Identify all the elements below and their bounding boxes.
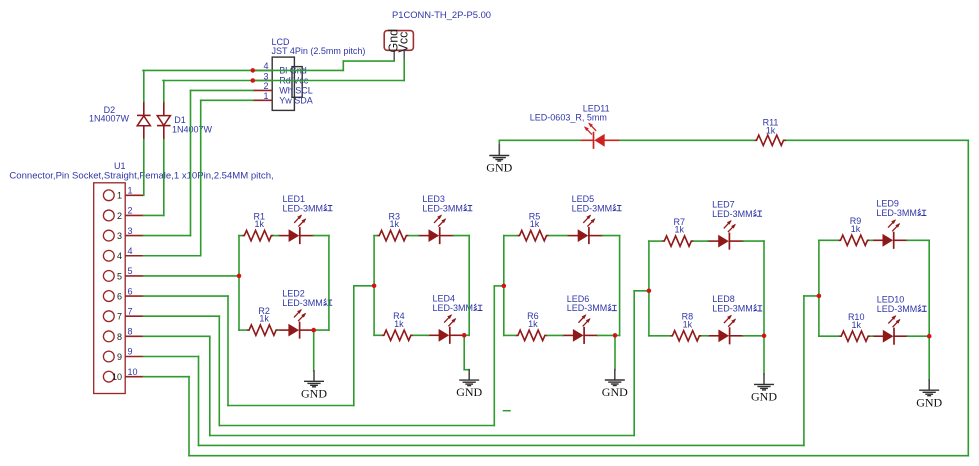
svg-text:1k: 1k bbox=[255, 219, 265, 229]
svg-text:2: 2 bbox=[117, 211, 122, 221]
wire pin6 vertical down bbox=[227, 296, 229, 405]
wire block2 ground jog bbox=[464, 369, 469, 371]
wire bbox=[277, 329, 279, 331]
wire block1 to ground bbox=[313, 330, 315, 371]
LED LED4 bbox=[428, 334, 438, 336]
P1 pin 1 Gnd bbox=[386, 29, 400, 61]
wire D1 to LCD pin3 row bbox=[163, 81, 165, 102]
resistor R8 bbox=[670, 331, 702, 341]
svg-text:1: 1 bbox=[117, 191, 122, 201]
wire U1 pin1 to D2 bbox=[143, 140, 145, 196]
U1 pin 1 bbox=[103, 186, 143, 201]
wire left vertical bbox=[238, 236, 240, 331]
junction bbox=[817, 294, 822, 299]
svg-text:1: 1 bbox=[263, 91, 268, 101]
svg-text:9: 9 bbox=[128, 347, 133, 357]
wire U1 pin3 horizontal bbox=[144, 235, 191, 237]
svg-text:6: 6 bbox=[117, 291, 122, 301]
wire bbox=[908, 335, 930, 337]
resistor R3 bbox=[377, 230, 409, 240]
svg-text:3: 3 bbox=[117, 231, 122, 241]
svg-text:10: 10 bbox=[112, 372, 122, 382]
wire bbox=[819, 335, 839, 337]
svg-text:LED-3MM: LED-3MM bbox=[712, 209, 753, 219]
svg-text:5: 5 bbox=[128, 266, 133, 276]
wire U1 pin2 horizontal bbox=[144, 214, 164, 216]
wire block3 to ground bbox=[614, 335, 616, 369]
wire block2 to ground bbox=[463, 335, 465, 369]
svg-text:3: 3 bbox=[128, 226, 133, 236]
svg-text:GND: GND bbox=[456, 385, 482, 399]
svg-text:1k: 1k bbox=[683, 319, 693, 329]
wire U1 pin7 horizontal bbox=[144, 315, 220, 317]
wire LED11 to R11 bbox=[618, 139, 754, 141]
U1 pin 5 bbox=[103, 266, 143, 281]
junction bbox=[762, 334, 767, 339]
svg-text:LED-3MM: LED-3MM bbox=[283, 203, 324, 213]
ground GND block4 bbox=[763, 374, 765, 384]
wire LCD pin4 row horizontal bbox=[143, 69, 343, 71]
svg-text:1k: 1k bbox=[528, 319, 538, 329]
svg-text:8: 8 bbox=[128, 327, 133, 337]
wire U1 pin5 to block1 bbox=[144, 275, 240, 277]
resistor R6 bbox=[515, 330, 547, 340]
U1 pin 10 bbox=[103, 367, 143, 382]
LED LED10 bbox=[873, 335, 883, 337]
svg-text:JST 4Pin (2.5mm pitch): JST 4Pin (2.5mm pitch) bbox=[272, 46, 366, 56]
wire stray segment bbox=[504, 410, 511, 412]
U1 pin 8 bbox=[103, 327, 143, 342]
svg-text:GND: GND bbox=[301, 386, 327, 400]
svg-text:1k: 1k bbox=[675, 225, 685, 235]
wire bbox=[598, 334, 620, 336]
wire bbox=[374, 334, 381, 336]
resistor R7 bbox=[662, 236, 694, 246]
wire pin7 bus bbox=[219, 425, 494, 427]
wire bbox=[907, 239, 929, 241]
wire bbox=[702, 335, 708, 337]
ground GND block3 bbox=[614, 370, 616, 380]
LCD pin 2 Wh SCL bbox=[253, 81, 313, 95]
LED LED3 bbox=[418, 235, 428, 237]
svg-text:1k: 1k bbox=[394, 319, 404, 329]
svg-text:Vcc: Vcc bbox=[397, 32, 411, 53]
svg-text:1k: 1k bbox=[530, 219, 540, 229]
wire left vertical bbox=[818, 240, 820, 336]
svg-text:LED-3MM: LED-3MM bbox=[877, 304, 918, 314]
svg-text:1k: 1k bbox=[851, 320, 861, 330]
wire bbox=[870, 239, 872, 241]
connector LCD key box bbox=[292, 67, 302, 98]
LCD pin 3 Rd Vcc bbox=[253, 71, 309, 85]
wire right vertical bbox=[328, 236, 330, 331]
wire bbox=[547, 334, 562, 336]
ground GND net LED11 bbox=[498, 145, 500, 155]
wire right vertical bbox=[619, 236, 621, 336]
wire to P1 Gnd pin bbox=[343, 60, 394, 62]
wire bbox=[453, 235, 469, 237]
U1 pin 7 bbox=[103, 306, 143, 321]
LED LED7 bbox=[708, 240, 718, 242]
wire SDA vertical bbox=[200, 100, 202, 255]
LED LED5 bbox=[568, 235, 578, 237]
junction bbox=[311, 328, 316, 333]
wire left vertical bbox=[373, 236, 375, 336]
svg-text:Wh SCL: Wh SCL bbox=[279, 85, 313, 95]
wire pin7 to block3 bbox=[494, 285, 504, 287]
wire block5 to ground bbox=[928, 336, 930, 380]
wire pin8 to block4 bbox=[634, 290, 649, 292]
wire bbox=[504, 334, 516, 336]
U1 pin 9 bbox=[103, 347, 143, 362]
wire pin10 vertical down bbox=[188, 377, 190, 456]
wire right vertical bbox=[468, 236, 470, 336]
junction bbox=[251, 68, 256, 73]
wire block4 to ground bbox=[763, 336, 765, 374]
svg-text:LED-3MM: LED-3MM bbox=[422, 203, 463, 213]
junction bbox=[251, 78, 256, 83]
wire bbox=[313, 329, 329, 331]
svg-text:LED-3MM: LED-3MM bbox=[572, 203, 613, 213]
junction bbox=[502, 284, 507, 289]
wire pin8 bus bbox=[210, 435, 634, 437]
wire bbox=[694, 240, 708, 242]
svg-text:4: 4 bbox=[117, 251, 122, 261]
svg-text:5: 5 bbox=[117, 271, 122, 281]
ground GND block1 bbox=[313, 371, 315, 381]
svg-text:Connector,Pin Socket,Straight,: Connector,Pin Socket,Straight,Female,1 x… bbox=[9, 170, 273, 181]
resistor R11 bbox=[754, 135, 786, 145]
junction bbox=[372, 284, 377, 289]
svg-text:1k: 1k bbox=[259, 314, 269, 324]
LED LED8 bbox=[708, 335, 718, 337]
wire bbox=[463, 334, 469, 336]
wire pin9 to block5 bbox=[804, 295, 819, 297]
wire bbox=[504, 235, 517, 237]
svg-text:8: 8 bbox=[117, 332, 122, 342]
wire pin6 riser bbox=[353, 286, 355, 406]
wire U1 pin2 to D1 bbox=[163, 140, 165, 216]
LCD pin 1 Yw SDA bbox=[253, 91, 313, 105]
wire U1 pin4 horizontal bbox=[144, 255, 201, 257]
wire U1 pin10 horizontal bbox=[144, 376, 190, 378]
LED LED2 bbox=[278, 329, 288, 331]
wire bbox=[649, 240, 662, 242]
svg-text:1k: 1k bbox=[851, 224, 861, 234]
svg-text:LED-3MM: LED-3MM bbox=[712, 304, 753, 314]
connector P1 body bbox=[384, 31, 413, 51]
wire SCL vertical bbox=[190, 90, 192, 235]
resistor R1 bbox=[242, 230, 274, 240]
svg-text:1k: 1k bbox=[766, 126, 776, 136]
junction bbox=[613, 333, 618, 338]
wire bbox=[313, 235, 329, 237]
wire SCL to LCD pin2 bbox=[191, 89, 253, 91]
wire LED11 to GND corner bbox=[499, 139, 580, 141]
svg-text:2: 2 bbox=[263, 81, 268, 91]
wire U1 pin6 horizontal bbox=[144, 295, 229, 297]
junction bbox=[462, 333, 467, 338]
wire bbox=[743, 240, 764, 242]
LED LED11 bbox=[580, 139, 594, 141]
wire pin9 bus bbox=[199, 444, 804, 446]
wire R11 to right riser bbox=[786, 139, 968, 141]
svg-text:1: 1 bbox=[128, 186, 133, 196]
U1 pin 3 bbox=[103, 226, 143, 241]
wire pin8 riser bbox=[633, 291, 635, 436]
wire bbox=[239, 329, 247, 331]
wire bbox=[549, 235, 568, 237]
ground GND block2 bbox=[468, 370, 470, 380]
wire pin9 riser bbox=[803, 296, 805, 446]
wire U1 pin8 horizontal bbox=[144, 335, 210, 337]
wire right edge riser bbox=[967, 140, 969, 455]
svg-text:GND: GND bbox=[916, 395, 942, 409]
svg-text:6: 6 bbox=[128, 286, 133, 296]
svg-text:LED-3MM: LED-3MM bbox=[282, 298, 323, 308]
wire bbox=[274, 235, 279, 237]
resistor R10 bbox=[839, 331, 871, 341]
svg-text:GND: GND bbox=[486, 161, 512, 175]
svg-text:LED-0603_R, 5mm: LED-0603_R, 5mm bbox=[530, 112, 607, 122]
resistor R2 bbox=[247, 325, 279, 335]
wire bbox=[239, 235, 242, 237]
wire up to P1 Gnd level bbox=[342, 61, 344, 70]
svg-text:P1CONN-TH_2P-P5.00: P1CONN-TH_2P-P5.00 bbox=[392, 9, 491, 20]
svg-text:7: 7 bbox=[128, 306, 133, 316]
wire bbox=[413, 334, 428, 336]
svg-text:7: 7 bbox=[117, 312, 122, 322]
ground GND block5 bbox=[928, 380, 930, 390]
wire pin7 vertical down bbox=[218, 316, 220, 425]
svg-text:4: 4 bbox=[128, 246, 133, 256]
wire bbox=[649, 335, 670, 337]
wire pin10 bus bottom bbox=[189, 455, 968, 457]
P1 pin 2 Vcc bbox=[397, 32, 411, 60]
svg-text:GND: GND bbox=[751, 390, 777, 404]
svg-text:GND: GND bbox=[602, 385, 628, 399]
connector LCD body bbox=[272, 57, 294, 110]
LED LED6 bbox=[563, 334, 573, 336]
U1 pin 4 bbox=[103, 246, 143, 261]
svg-text:10: 10 bbox=[128, 367, 138, 377]
wire pin9 vertical down bbox=[198, 357, 200, 446]
svg-text:1k: 1k bbox=[390, 219, 400, 229]
diode D1 bbox=[157, 101, 171, 139]
wire U1 pin9 horizontal bbox=[144, 356, 199, 358]
diode D2 bbox=[137, 101, 151, 139]
resistor R4 bbox=[381, 330, 413, 340]
wire pin6 bus bbox=[228, 405, 354, 407]
wire D2 to LCD pin4 row bbox=[143, 70, 145, 101]
wire LCD pin3 row horizontal bbox=[163, 80, 404, 82]
svg-text:LED-3MM: LED-3MM bbox=[433, 303, 474, 313]
connector U1 body bbox=[94, 183, 126, 394]
wire SDA to LCD pin1 bbox=[201, 99, 253, 101]
wire bbox=[409, 235, 419, 237]
svg-text:LED-3MM: LED-3MM bbox=[567, 303, 608, 313]
svg-text:2: 2 bbox=[128, 206, 133, 216]
wire pin8 vertical down bbox=[209, 336, 211, 435]
wire up to P1 Vcc pin bbox=[403, 59, 405, 80]
wire left vertical bbox=[503, 236, 505, 336]
LED LED9 bbox=[872, 239, 882, 241]
junction bbox=[647, 289, 652, 294]
wire bbox=[743, 335, 764, 337]
LED LED1 bbox=[278, 235, 288, 237]
wire pin6 to block2 bbox=[354, 285, 374, 287]
wire right vertical bbox=[928, 240, 930, 336]
LCD pin 4 Bl Gnd bbox=[253, 61, 307, 75]
junction bbox=[237, 274, 242, 279]
wire right vertical bbox=[763, 241, 765, 336]
svg-text:1N4007W: 1N4007W bbox=[172, 125, 213, 135]
svg-text:1N4007W: 1N4007W bbox=[89, 114, 130, 124]
U1 pin 6 bbox=[103, 286, 143, 301]
wire down to ground bbox=[498, 140, 500, 145]
wire bbox=[819, 239, 838, 241]
wire pin7 riser bbox=[493, 286, 495, 426]
wire bbox=[374, 235, 377, 237]
wire left vertical bbox=[648, 241, 650, 336]
resistor R5 bbox=[517, 230, 549, 240]
svg-text:LED-3MM: LED-3MM bbox=[876, 208, 917, 218]
U1 pin 2 bbox=[103, 206, 143, 221]
svg-text:9: 9 bbox=[117, 352, 122, 362]
svg-text:Yw SDA: Yw SDA bbox=[279, 95, 313, 105]
junction bbox=[927, 334, 932, 339]
resistor R9 bbox=[838, 235, 870, 245]
wire bbox=[603, 235, 620, 237]
wire bbox=[871, 335, 873, 337]
